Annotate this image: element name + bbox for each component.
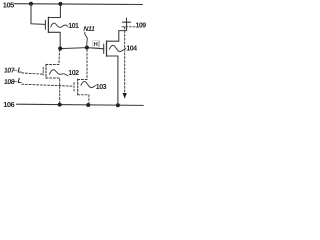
arrowhead of 109 current path <box>123 93 127 99</box>
dashed current path 109 (vertical) <box>124 27 126 93</box>
wire source of 101 down to node N11 <box>48 32 60 48</box>
dashed leader from 109 <box>122 26 136 28</box>
faint box around H level marker <box>92 41 99 48</box>
wire bottom rail 106 <box>17 104 144 105</box>
power tap stub <box>126 18 128 22</box>
transistor 103 channel bar (dashed) <box>77 79 79 95</box>
transistor 102 channel bar (dashed) <box>45 64 47 78</box>
dashed gate line 108 to 103 <box>22 84 74 86</box>
junction dot C (source of 101 / drain of 102) <box>58 46 62 50</box>
junction dot E (source of 102 on rail) <box>58 103 62 107</box>
svg-text:H: H <box>94 42 98 48</box>
svg-text:103: 103 <box>96 84 107 91</box>
wire drain of 104 up to power tap <box>107 22 127 41</box>
leader squiggle for 103 <box>81 82 96 88</box>
svg-text:102: 102 <box>68 70 79 77</box>
transistor 104 gate bar <box>103 44 105 53</box>
leader squiggle for N11 <box>85 32 88 46</box>
junction dot D (N11 tap to 103) <box>85 46 89 50</box>
svg-text:108: 108 <box>3 79 14 86</box>
wire drain of 101 to top rail <box>48 4 60 18</box>
transistor 104 channel bar <box>106 41 108 56</box>
svg-text:101: 101 <box>68 23 79 30</box>
svg-text:105: 105 <box>3 0 14 9</box>
transistor 101 channel bar <box>47 17 49 32</box>
dashed source of 103 down to rail <box>78 95 89 105</box>
transistor 102 gate bar (dashed) <box>42 67 44 75</box>
wire node N11 horizontal <box>60 48 103 49</box>
dashed net from node D down to drain of 103 <box>86 50 88 80</box>
dashed leader 107 <box>14 69 17 71</box>
junction dot G (source of 104 on rail) <box>116 103 120 107</box>
svg-text:107: 107 <box>3 68 14 75</box>
leader squiggle for 104 <box>109 45 126 51</box>
transistor 103 gate bar (dashed) <box>73 83 75 92</box>
wire source of 104 down to bottom rail <box>107 56 118 105</box>
svg-text:109: 109 <box>136 23 147 30</box>
dashed gate line 107 to 102 <box>22 73 43 74</box>
right edge tick of H box <box>98 41 100 47</box>
svg-text:104: 104 <box>126 46 137 53</box>
transistor 101 gate bar <box>44 20 46 29</box>
wire top rail 105 <box>15 3 143 6</box>
power tap bar <box>123 21 131 23</box>
dashed source of 102 down to rail <box>46 78 60 105</box>
junction dot A (gate feed of 101 on rail) <box>29 2 33 6</box>
wire gate feed of 101 <box>31 4 45 25</box>
leader squiggle for 102 <box>49 70 68 76</box>
leader squiggle for 101 <box>51 23 68 27</box>
dashed drain of 102 up to node C <box>46 49 60 65</box>
junction dot B (drain of 101 on rail) <box>58 2 62 6</box>
dashed leader 108 <box>14 81 17 83</box>
svg-text:106: 106 <box>3 100 14 109</box>
junction dot F (source of 103 on rail) <box>86 103 90 107</box>
dashed drain of 103 <box>78 79 87 81</box>
